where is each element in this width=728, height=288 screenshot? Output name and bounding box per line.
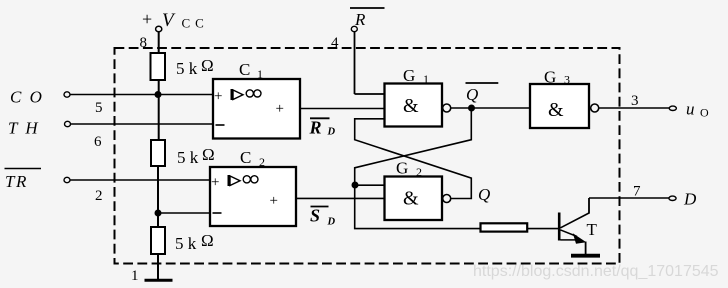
- svg-text:+: +: [211, 175, 219, 191]
- svg-text:CC: CC: [182, 16, 209, 31]
- svg-text:&: &: [548, 99, 564, 121]
- svg-text:S: S: [310, 206, 320, 226]
- svg-text:TR: TR: [5, 172, 28, 191]
- svg-text:+: +: [214, 89, 222, 105]
- svg-text:4: 4: [331, 35, 339, 51]
- svg-text:R: R: [309, 118, 322, 138]
- svg-text:C: C: [239, 60, 250, 79]
- svg-text:7: 7: [633, 184, 641, 200]
- svg-text:C O: C O: [10, 88, 44, 107]
- svg-text:+: +: [270, 193, 278, 209]
- svg-text:u: u: [686, 100, 695, 119]
- svg-text:Q: Q: [478, 185, 490, 204]
- svg-text:Ω: Ω: [201, 56, 214, 75]
- svg-text:5 k: 5 k: [177, 148, 199, 167]
- svg-text:8: 8: [140, 35, 148, 51]
- svg-text:T H: T H: [8, 119, 40, 138]
- svg-text:&: &: [403, 188, 419, 210]
- svg-text:D: D: [327, 127, 336, 138]
- svg-text:D: D: [327, 217, 336, 228]
- svg-text:O: O: [700, 106, 709, 120]
- svg-text:+: +: [142, 9, 152, 29]
- svg-text:G: G: [396, 159, 408, 178]
- svg-text:5 k: 5 k: [176, 59, 198, 78]
- svg-text:5: 5: [95, 100, 103, 116]
- svg-text:T: T: [587, 220, 598, 239]
- svg-text:6: 6: [94, 134, 102, 150]
- svg-text:1: 1: [131, 268, 139, 284]
- svg-text:&: &: [403, 95, 419, 117]
- svg-text:5 k: 5 k: [175, 234, 197, 253]
- svg-text:D: D: [683, 190, 697, 209]
- svg-text:C: C: [240, 148, 251, 167]
- svg-text:+: +: [276, 101, 284, 117]
- svg-text:Q: Q: [466, 85, 478, 104]
- svg-text:V: V: [162, 10, 176, 31]
- svg-text:3: 3: [631, 93, 639, 109]
- svg-text:https://blog.csdn.net/qq_17017: https://blog.csdn.net/qq_17017545: [473, 263, 719, 280]
- svg-text:2: 2: [95, 188, 103, 204]
- svg-text:Ω: Ω: [202, 145, 215, 164]
- svg-text:G: G: [403, 66, 415, 85]
- svg-text:Ω: Ω: [201, 231, 214, 250]
